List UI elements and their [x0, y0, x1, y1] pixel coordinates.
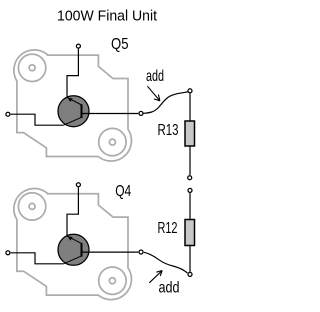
svg-text:Q4: Q4 [115, 183, 131, 200]
added jumper wire (upper) [143, 92, 188, 113]
transistor Q5 emitter diagonal with arrow [67, 97, 82, 105]
node: top of R13 [188, 89, 192, 93]
terminal top Q5 [76, 44, 80, 48]
transistor Q5 collector diagonal [64, 117, 82, 125]
mounting hole bottom-right Q4 [99, 267, 126, 294]
terminal left Q4 [6, 251, 10, 255]
svg-text:add: add [159, 279, 180, 296]
wire: top terminal to Q5 [67, 49, 78, 98]
node bottom of R12 [188, 272, 192, 276]
annotation arrow (upper) [147, 86, 159, 100]
wire: left terminal to Q4 [11, 253, 64, 264]
mounting hole top-left Q4 [18, 193, 45, 220]
wire: ring to R12 [189, 193, 191, 220]
mounting hole top-left Q5 [18, 54, 45, 81]
wire: R12 to bottom ring [189, 246, 191, 273]
svg-text:R12: R12 [158, 220, 178, 237]
resistor R12 [185, 220, 195, 246]
transistor Q5 base bar [81, 104, 83, 118]
wire: left terminal to Q5 [11, 114, 64, 125]
terminal top of R12 [188, 188, 192, 192]
transistor Q4 collector diagonal [64, 256, 82, 264]
transistor Q4 emitter diagonal with arrow [67, 236, 82, 244]
terminal bottom of R13 [188, 176, 192, 180]
wire: ring to R13 [189, 93, 191, 121]
svg-text:R13: R13 [158, 122, 179, 139]
resistor R13 [185, 121, 195, 146]
mounting hole bottom-right Q5 [99, 128, 126, 155]
terminal base Q4 [139, 250, 143, 254]
transistor Q4 body [58, 234, 89, 265]
transistor Q4 base bar [81, 243, 83, 257]
added jumper wire (lower) [144, 252, 188, 273]
wire: Q5 base to right ring [82, 113, 139, 115]
TO-3 package outline Q4 [14, 188, 132, 299]
transistor Q5 body [58, 96, 89, 127]
wire: top terminal to Q4 [67, 187, 78, 236]
wire: Q4 base to right ring [82, 251, 139, 253]
svg-text:add: add [146, 68, 164, 85]
terminal base Q5 [139, 111, 143, 115]
terminal top Q4 [76, 183, 80, 187]
svg-text:100W Final Unit: 100W Final Unit [57, 8, 158, 25]
TO-3 package outline Q5 [14, 50, 132, 161]
wire: R13 to bottom ring [189, 146, 191, 175]
annotation arrow (lower) [149, 271, 161, 283]
svg-text:Q5: Q5 [111, 36, 129, 53]
terminal left Q5 [6, 112, 10, 116]
